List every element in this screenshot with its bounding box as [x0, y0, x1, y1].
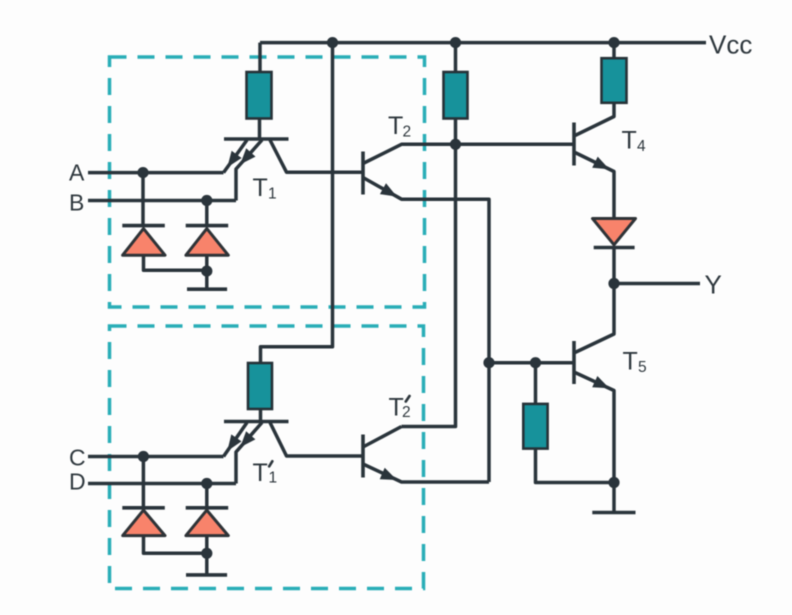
transistor T2 emitter [363, 178, 489, 483]
resistor R3 [523, 404, 547, 449]
transistor T1 multi-emitter bar [224, 137, 289, 141]
wire D1-prime anode to D2-prime anode [144, 536, 207, 554]
junction dot input D [201, 478, 212, 489]
svg-text:T: T [253, 459, 268, 487]
transistor T1-prime bar [224, 420, 289, 424]
arrowhead T4 emitter [592, 157, 609, 170]
svg-text:B: B [69, 190, 84, 216]
wire R1-prime bottom to T1-prime base [259, 409, 263, 422]
wire riser R4 to rail [612, 43, 616, 59]
svg-text:D: D [69, 469, 86, 495]
arrowhead T1-prime emitter 1 [227, 434, 241, 451]
transistor T1-prime emitter 2 [236, 423, 262, 484]
prime mark of T2-prime label [406, 396, 410, 402]
diode D2 triangle [186, 229, 228, 256]
wire T5 emitter to ground [612, 483, 616, 513]
wire input A line [88, 171, 224, 175]
transistor T1 emitter 2 [236, 140, 262, 201]
wire C node to diode D1-prime [142, 457, 146, 508]
resistor R4 [602, 58, 627, 103]
junction dot rail x455 [450, 37, 461, 48]
arrowhead T1 emitter 1 [227, 151, 241, 168]
transistor T2-prime emitter [363, 464, 489, 482]
svg-text:4: 4 [637, 138, 646, 155]
wire node to T4 base [456, 143, 575, 147]
arrowhead T2-prime emitter [380, 468, 397, 480]
wire D2-prime anode to ground [205, 536, 209, 575]
arrowhead T2 emitter [380, 183, 397, 196]
svg-text:Vcc: Vcc [709, 30, 752, 60]
arrowhead T1-prime emitter 2 [240, 431, 255, 447]
junction dot T5 emitter [608, 477, 619, 488]
arrowhead T1 emitter 2 [240, 148, 255, 164]
junction dot input B [201, 195, 212, 206]
wire riser R2 to rail [454, 43, 458, 72]
transistor T4 collector [575, 103, 614, 136]
transistor T4 bar [572, 123, 576, 166]
ground bar under D2-prime [186, 573, 227, 577]
arrowhead T5 emitter [592, 376, 609, 388]
resistor R1-prime [248, 363, 272, 409]
wire input D line [88, 482, 236, 486]
wire riser R1 to rail [258, 43, 262, 72]
diode D1 cathode bar [122, 224, 165, 228]
wire Vcc rail [260, 41, 706, 45]
wire Y node to label [614, 282, 700, 286]
transistor T2 collector [363, 144, 456, 163]
diode D1-prime triangle [123, 510, 165, 535]
svg-text:T: T [253, 174, 268, 202]
svg-text:T: T [388, 112, 403, 140]
transistor T1 emitter 1 [224, 140, 248, 173]
wire R1 bottom to T1 base [258, 119, 262, 140]
junction dot rail x614 [608, 37, 619, 48]
wire input B line [88, 199, 236, 203]
diode D4 triangle (output diode) [593, 219, 636, 245]
wire B node to diode D2 [205, 201, 209, 226]
diode D2 cathode bar [186, 224, 229, 228]
transistor T2-prime collector [363, 427, 402, 448]
svg-text:2: 2 [402, 404, 411, 421]
junction dot diode anodes top box [201, 266, 212, 277]
transistor T5 emitter [575, 373, 614, 483]
dashed box input stage 2 [110, 326, 424, 589]
wire input C line [88, 455, 224, 459]
diode D4 cathode bar [594, 246, 635, 250]
transistor T1 collector to T2 base [270, 140, 362, 172]
diode D1 triangle [123, 229, 165, 256]
resistor R3 top wire [534, 363, 538, 404]
transistor T1-prime collector to T2-prime base [270, 423, 362, 457]
svg-text:C: C [69, 445, 86, 471]
junction dot Y node [608, 278, 619, 289]
junction dot node T2 collector [450, 139, 461, 150]
transistor T5 base wire from emitter node [489, 361, 574, 365]
junction dot input C [138, 451, 149, 462]
wire node down to T2-prime collector [402, 144, 456, 426]
wire Y node to T5 collector [575, 284, 614, 353]
svg-text:T: T [623, 348, 638, 376]
diode D1-prime cathode bar [122, 506, 165, 510]
resistor R3 bottom wire to emitter node [536, 449, 615, 483]
svg-text:5: 5 [638, 359, 647, 376]
svg-text:A: A [69, 160, 85, 186]
transistor T4 emitter [575, 153, 614, 219]
junction dot R3 top [530, 357, 541, 368]
diode D2-prime triangle [186, 510, 228, 535]
wire D2 anode to ground [205, 255, 209, 289]
junction dot T5 base left [483, 357, 494, 368]
svg-text:1: 1 [269, 470, 278, 487]
ground bar under D2 [187, 287, 227, 291]
resistor R1 [247, 72, 272, 119]
wire R2 bottom to node [454, 119, 458, 145]
wire D node to diode D2-prime [205, 484, 209, 508]
prime mark of T1-prime label [269, 461, 272, 466]
junction dot input A [137, 167, 148, 178]
transistor T2-prime bar [361, 435, 365, 478]
svg-text:T: T [622, 127, 637, 155]
junction dot rail x332 [327, 37, 338, 48]
transistor T5 bar [572, 341, 576, 384]
svg-text:Y: Y [705, 270, 722, 300]
resistor R2 [444, 72, 468, 119]
ground bar under T5 [592, 511, 635, 515]
wire rail branch to lower box resistor [261, 43, 333, 363]
svg-text:2: 2 [403, 124, 412, 141]
wire diode D4 cathode to Y node [612, 248, 616, 284]
transistor T2 bar [361, 152, 365, 195]
junction dot diode anodes bottom box [201, 548, 212, 559]
svg-text:1: 1 [268, 186, 277, 203]
dashed box input stage 1 [110, 57, 425, 307]
diode D2-prime cathode bar [186, 506, 229, 510]
wire D1 anode to D2 anode [144, 255, 207, 270]
transistor T1-prime emitter 1 [224, 423, 248, 457]
wire A node to diode D1 [141, 173, 145, 226]
